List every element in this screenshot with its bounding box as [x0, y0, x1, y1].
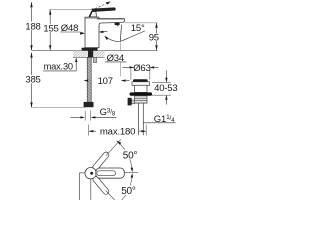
top view lever axis line — [124, 172, 138, 174]
drain side port stem — [132, 100, 135, 104]
deck hatch left — [73, 51, 88, 57]
lower 50 extension line — [106, 191, 115, 200]
label G1 1/4 — [143, 114, 175, 125]
top view pivot circle — [85, 168, 96, 179]
cartridge top line — [85, 17, 99, 19]
drain neck — [135, 85, 147, 92]
svg-text:50°: 50° — [123, 151, 138, 162]
dimension max.180 — [89, 125, 147, 138]
horizontal flow arrow — [100, 30, 107, 32]
top view lower lever arm ghost — [92, 175, 110, 195]
drain plug cap — [133, 79, 148, 82]
dimension 155 label — [43, 23, 59, 34]
dimension 155 arrows — [49, 9, 51, 50]
top reference line at lever height — [49, 9, 92, 11]
spout height reference line — [125, 22, 158, 24]
upper 50 extension line — [106, 139, 121, 156]
svg-text:50°: 50° — [121, 186, 136, 197]
svg-text:95: 95 — [149, 33, 159, 44]
mounting stud stub — [93, 57, 96, 62]
drain tailpipe — [138, 103, 143, 135]
hose bottom reference line — [32, 107, 86, 109]
hose end nut — [84, 102, 94, 107]
svg-text:Ø63: Ø63 — [133, 63, 150, 74]
aerator — [115, 23, 120, 26]
15 degree stream line — [120, 25, 121, 42]
dimension 95 line — [156, 23, 158, 50]
dimension O63 — [122, 63, 158, 74]
svg-text:188: 188 — [25, 21, 40, 32]
label O48 with leader — [60, 23, 84, 35]
lever lift dashed arrow — [95, 3, 109, 9]
svg-text:15°: 15° — [131, 23, 145, 34]
spout inner line — [97, 18, 124, 20]
top view lever inner detail — [97, 171, 116, 176]
dimension 385 line — [31, 53, 33, 108]
drain o-ring band — [130, 92, 152, 95]
svg-text:max.30: max.30 — [44, 62, 73, 72]
dimension 188 label — [25, 21, 41, 32]
deck bottom line — [73, 56, 105, 58]
label 50 upper — [122, 150, 139, 162]
lower arc arrowheads — [131, 173, 134, 178]
dimension 95 label — [148, 33, 159, 44]
dimension 385 label — [25, 75, 41, 86]
faucet body — [85, 17, 99, 48]
spout — [97, 19, 125, 28]
drain ribbed body — [135, 96, 147, 103]
base plate — [82, 48, 98, 51]
dimension 40-53 — [152, 70, 177, 104]
deck hatch right — [93, 51, 104, 57]
15 degree swing arc — [105, 36, 120, 41]
deck top reference line — [32, 50, 158, 52]
dimension 385 arrows — [30, 52, 32, 107]
top view upper lever arm ghost — [92, 151, 110, 171]
15 degree leader line — [121, 31, 145, 41]
lower 50 arc — [118, 176, 132, 204]
svg-text:107: 107 — [98, 76, 113, 87]
supply hose braided — [87, 57, 91, 102]
O63 extension lines — [130, 69, 132, 80]
lever handle — [92, 8, 116, 12]
drain side port nut — [128, 98, 132, 106]
top view pivot dot — [90, 172, 93, 175]
lever neck — [89, 11, 96, 17]
spout reach extension line — [119, 43, 121, 52]
top view body outline — [79, 173, 90, 200]
svg-text:155: 155 — [43, 23, 58, 34]
dimension 95 arrows — [155, 23, 157, 51]
drain flange plate — [132, 82, 150, 86]
top view horizontal lever — [96, 168, 125, 178]
svg-text:Ø34: Ø34 — [107, 53, 124, 64]
label O34 — [105, 53, 126, 64]
svg-text:40-53: 40-53 — [154, 83, 177, 94]
upper 50 arc — [117, 141, 132, 171]
dimension G3/8 — [70, 111, 116, 121]
svg-text:385: 385 — [25, 75, 40, 86]
label max.30 — [43, 58, 77, 72]
dimension 107 — [84, 76, 130, 87]
label 50 lower — [121, 185, 138, 197]
dimension 188 line — [31, 2, 33, 50]
svg-text:max.180: max.180 — [100, 126, 135, 137]
shank through deck — [88, 51, 93, 58]
upper arc arrowheads — [117, 141, 122, 145]
lever lift arc — [93, 9, 98, 11]
dimension 188 arrows — [30, 2, 32, 50]
dimension 155 line — [49, 10, 51, 51]
